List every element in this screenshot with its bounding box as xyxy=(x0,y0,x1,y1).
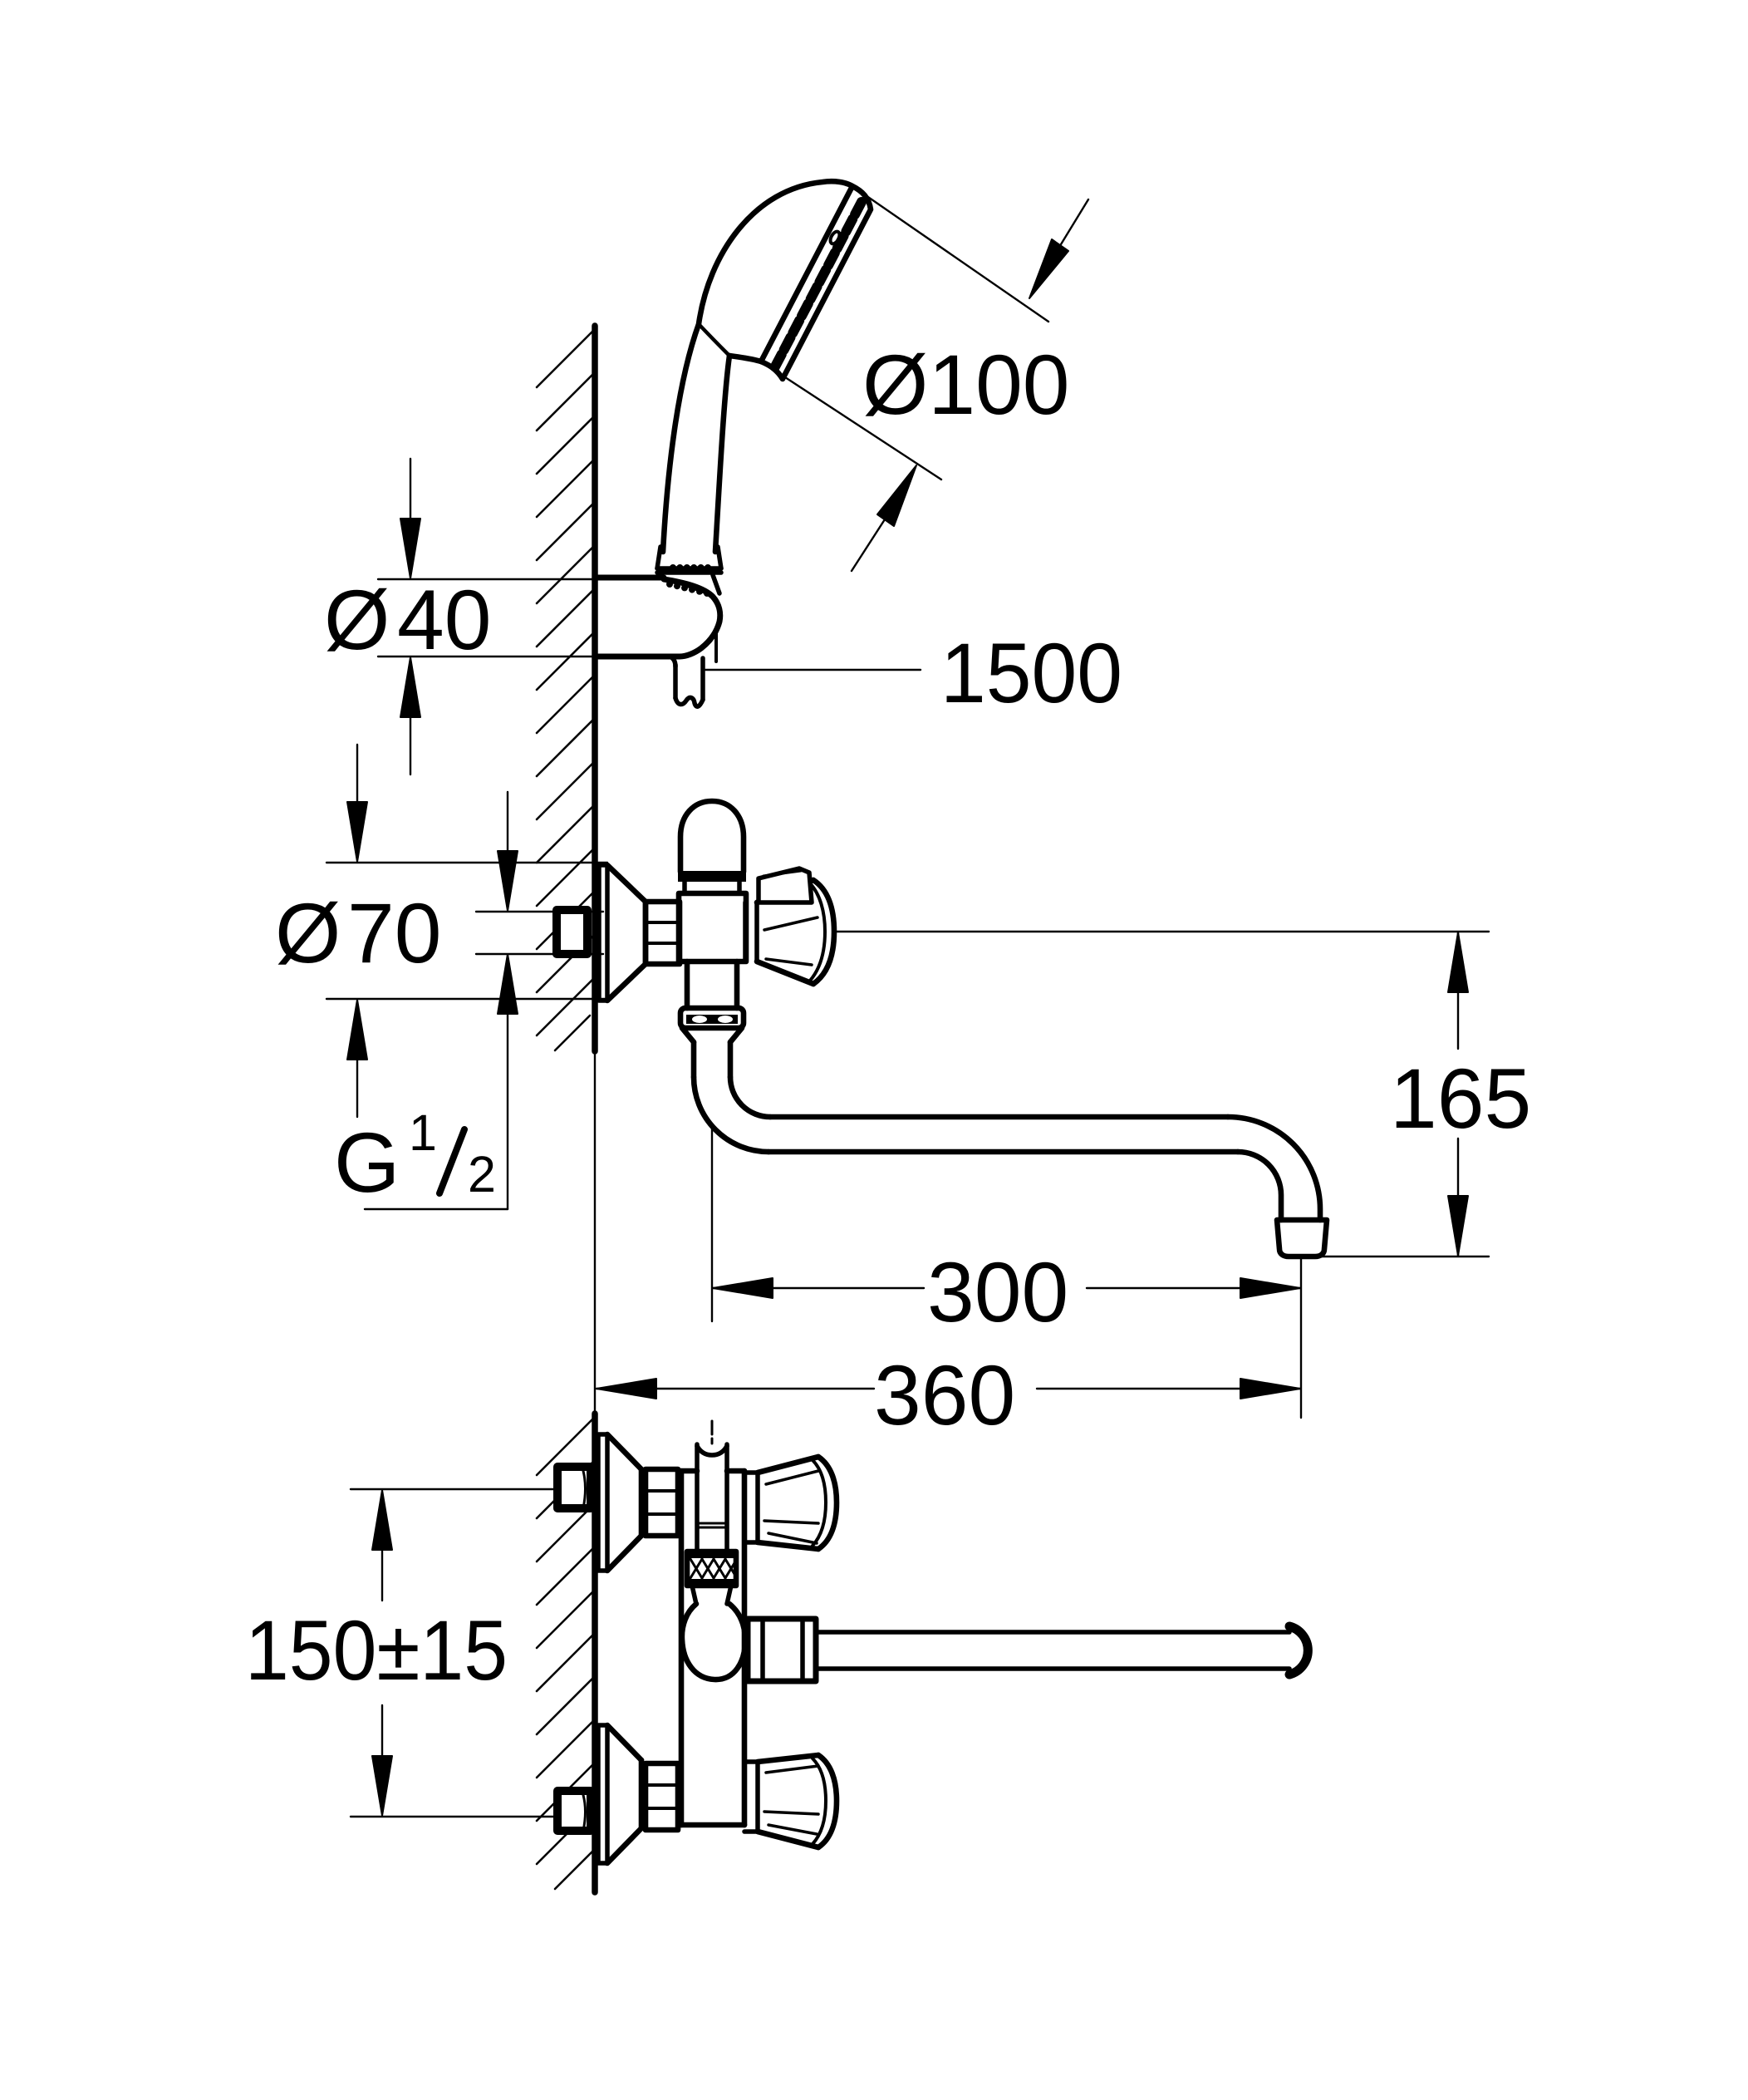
shower hose xyxy=(675,658,703,706)
dimension 300 extension lines xyxy=(712,1127,1301,1418)
dimension 360 arrows xyxy=(597,1379,656,1399)
diverter egg bottom view xyxy=(692,1586,731,1604)
spout S bend xyxy=(694,1077,770,1152)
spout tube bottom view xyxy=(816,1632,1289,1669)
dimension 360 line xyxy=(597,1388,1300,1389)
shower head spray nozzles xyxy=(773,202,862,370)
dimension 150±15 arrows xyxy=(381,1551,383,1601)
dimension Ø70 extension lines xyxy=(327,863,607,999)
wire wall-upper xyxy=(592,326,598,1051)
svg-text:1500: 1500 xyxy=(940,626,1122,720)
dimension G1/2 arrow lower xyxy=(498,954,518,1014)
wall fitting square bottom-lower xyxy=(557,1791,591,1831)
shower handle knurl dots xyxy=(670,564,711,571)
hex nut bottom-upper xyxy=(646,1469,678,1536)
faucet body dark band xyxy=(678,871,746,882)
wire wall-lower xyxy=(592,1414,598,1892)
shower holder nose xyxy=(595,579,720,657)
wall hatching upper xyxy=(537,329,595,1050)
handle bottom-view upper xyxy=(744,1473,758,1542)
spout end cap xyxy=(1289,1626,1308,1675)
shower head outline xyxy=(663,181,871,552)
diverter knob middle xyxy=(759,868,812,902)
knurled ring bottom view xyxy=(687,1552,736,1586)
handle middle cone xyxy=(757,880,834,984)
spout right bend xyxy=(1228,1117,1320,1220)
svg-text:Ø: Ø xyxy=(324,573,390,667)
escutcheon bottom-lower xyxy=(598,1725,607,1863)
faucet body block xyxy=(679,893,746,961)
faucet body lower tube xyxy=(687,961,737,1008)
handle bottom-view lower xyxy=(744,1762,758,1832)
dimension 300 line xyxy=(713,1287,1300,1289)
taper xyxy=(682,1028,742,1042)
dimension 150±15 extension lines xyxy=(351,1489,553,1817)
escutcheon bottom-upper xyxy=(598,1434,607,1571)
spout horizontal tube xyxy=(768,1117,1238,1152)
wire wall-extension xyxy=(594,1051,596,1414)
dimension Ø40 arrow lower xyxy=(410,715,411,775)
svg-text:1: 1 xyxy=(409,1104,437,1161)
wall hatching lower xyxy=(537,1417,595,1889)
shower holder inner edge xyxy=(714,633,718,661)
escutcheon middle plate xyxy=(599,865,607,1001)
connector ring xyxy=(680,1008,744,1028)
dimension Ø100 arrow upper xyxy=(1029,239,1068,298)
svg-text:Ø: Ø xyxy=(275,886,341,981)
dimension Ø70 arrow lower xyxy=(356,1059,358,1117)
dimension G1/2 arrow upper xyxy=(507,792,508,853)
svg-text:G: G xyxy=(334,1115,400,1210)
shower head neck line xyxy=(699,324,729,356)
spout aerator xyxy=(1277,1220,1327,1257)
svg-text:360: 360 xyxy=(874,1348,1015,1443)
shower head pivot detail xyxy=(828,230,841,249)
handle middle detail lines xyxy=(764,917,818,965)
spout S vertical tube xyxy=(694,1042,730,1077)
svg-text:70: 70 xyxy=(347,886,441,981)
leader 1500 xyxy=(705,669,921,671)
faucet body neck xyxy=(685,882,739,893)
dimension Ø100 extension lines xyxy=(761,186,1048,480)
shower holder hose lip xyxy=(670,657,675,666)
handle middle neck xyxy=(745,902,757,961)
shower handle end fitting xyxy=(657,547,721,593)
label G1/2 leader xyxy=(365,1208,508,1210)
riser centerline tick xyxy=(711,1421,714,1443)
dimension 165 extension lines xyxy=(837,932,1489,1257)
svg-text:2: 2 xyxy=(468,1146,496,1202)
shower holder top edge xyxy=(595,575,664,581)
dimension 300 arrows xyxy=(713,1278,773,1298)
svg-text:Ø100: Ø100 xyxy=(862,337,1070,432)
shower holder cradle dots xyxy=(666,581,710,597)
dimension Ø40 arrow upper xyxy=(410,459,411,521)
faucet body dome xyxy=(680,801,744,872)
faucet body bottom view xyxy=(681,1471,744,1825)
svg-text:300: 300 xyxy=(927,1245,1068,1340)
wall fitting square bottom-upper xyxy=(557,1467,591,1508)
dimension 165 line and arrows xyxy=(1457,932,1459,1049)
hex nut middle xyxy=(646,902,680,964)
dimension Ø40 extension lines xyxy=(378,579,611,657)
dimension G1/2 extension lines xyxy=(476,912,603,954)
svg-text:150±15: 150±15 xyxy=(245,1603,508,1698)
wall fitting square middle xyxy=(557,910,587,954)
dimension Ø100 arrow lower xyxy=(877,465,916,526)
escutcheon middle cone xyxy=(607,865,646,1001)
riser tube bottom view xyxy=(697,1444,727,1552)
dimension Ø70 arrow upper xyxy=(356,745,358,803)
svg-text:40: 40 xyxy=(397,573,491,667)
spout nut bottom view xyxy=(748,1619,816,1681)
svg-text:165: 165 xyxy=(1390,1051,1531,1146)
shower holder cradle line xyxy=(664,578,713,596)
hex nut bottom-lower xyxy=(646,1763,678,1830)
